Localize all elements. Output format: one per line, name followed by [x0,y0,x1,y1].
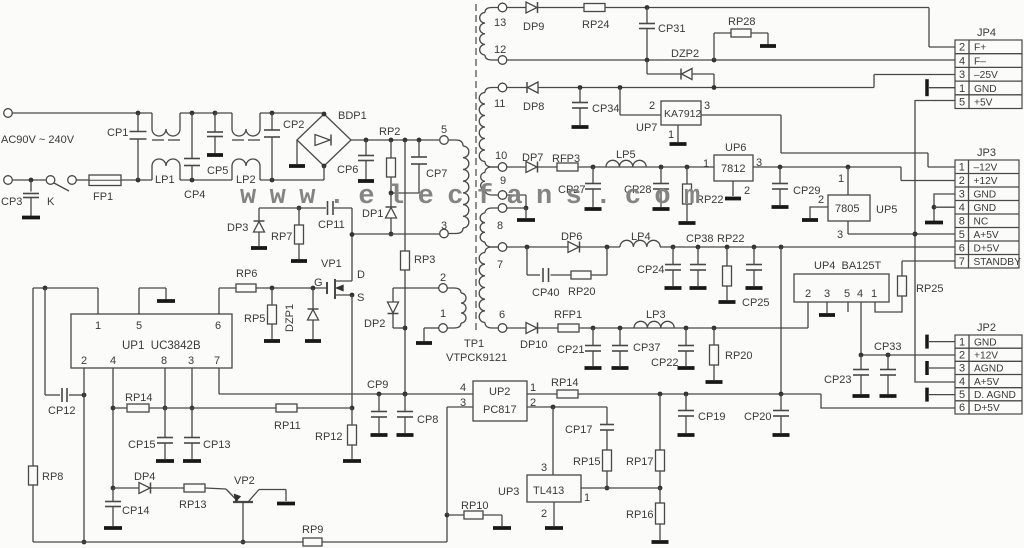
svg-text:D. AGND: D. AGND [974,390,1016,401]
svg-text:TP1: TP1 [464,338,484,350]
capacitor CP17 [606,407,608,425]
svg-text:5: 5 [844,288,850,300]
svg-text:D: D [357,269,365,281]
ground center tap [517,218,535,222]
svg-text:13: 13 [494,17,506,29]
svg-text:CP15: CP15 [128,439,156,451]
resistor RP28 [713,33,715,60]
wire rail 7 [507,246,568,248]
resistor RFP3 [557,163,578,171]
transistor VP1 (MOSFET) [326,282,328,294]
svg-text:5: 5 [959,96,965,108]
svg-text:RP3: RP3 [414,254,435,266]
svg-text:5: 5 [959,229,965,241]
capacitor CP15 [164,408,166,438]
wire STANDBY to JP3 [902,260,955,262]
svg-text:6: 6 [499,309,505,321]
ground bridge left vertex [296,140,298,164]
switch K [46,176,55,185]
capacitor CP5 [213,111,218,116]
svg-text:CP19: CP19 [698,411,726,423]
svg-text:UP6: UP6 [725,142,746,154]
svg-text:3: 3 [704,100,710,112]
ground UP4 pin3 [826,302,828,313]
wire +12V to JP3 [753,166,901,168]
capacitor CP6 [364,138,369,143]
connector JP3 [955,160,1019,268]
resistor RP22 output [726,247,728,266]
capacitor CP8 [404,394,406,412]
inductor LP2 top winding [231,113,233,129]
svg-text:LP5: LP5 [616,149,636,161]
svg-text:3: 3 [824,288,830,300]
svg-text:RP12: RP12 [315,431,343,443]
op-amp U2 optocoupler UP2 PC817 [473,381,527,421]
svg-text:GND: GND [974,190,997,201]
svg-text:UP3: UP3 [498,486,519,498]
svg-text:1: 1 [959,83,965,95]
wire A+5V JP4 to JP2 [915,101,955,383]
svg-text:4: 4 [959,55,965,67]
svg-text:3: 3 [837,229,843,241]
zener DZP1 [312,288,314,309]
svg-text:RP15: RP15 [573,456,601,468]
wire source to sense node [351,295,353,408]
svg-text:2: 2 [744,185,750,197]
zener DZP2 [646,60,648,74]
svg-text:CP5: CP5 [207,165,228,177]
capacitor CP19 [685,394,687,411]
capacitor CP33 [887,355,889,370]
resistor RP14 output [527,393,557,395]
capacitor CP27 [592,167,594,184]
wire RP14 row [113,407,127,409]
capacitor CP7 [417,138,422,143]
capacitor CP14 [112,488,114,502]
svg-text:RP2: RP2 [379,126,400,138]
inductor LP2 core [232,139,244,141]
op-amp U1 controller UP1 UC3842B box [71,314,232,368]
svg-text:1: 1 [668,129,674,141]
svg-text:2: 2 [959,175,965,187]
svg-text:CP34: CP34 [592,103,620,115]
svg-text:CP4: CP4 [184,189,205,201]
svg-text:CP29: CP29 [793,185,821,197]
svg-text:2: 2 [818,194,824,206]
inductor LP1 top winding [151,113,153,129]
svg-text:CP21: CP21 [557,344,585,356]
svg-text:DP9: DP9 [523,21,544,33]
svg-text:1: 1 [95,320,101,332]
wire pins 9-8 center tap [507,194,526,196]
svg-text:6: 6 [959,402,965,414]
transformer TP1 secondary winding 8-7 [498,204,507,213]
regulator UP7 KA7912 [619,88,621,116]
svg-text:RP25: RP25 [916,283,944,295]
svg-text:DP7: DP7 [522,152,543,164]
wire rail 12 to JP4 F- [507,59,955,61]
svg-text:CP33: CP33 [874,341,902,353]
svg-text:RP10: RP10 [461,500,489,512]
ground VP2 collector [277,502,295,506]
transformer TP1 secondary winding 7-6 [485,247,498,253]
wire bottom feedback rail [33,541,303,543]
ground TL413 pin2 [553,502,555,526]
wire +12V to JP2 [861,354,955,356]
capacitor CP2 [271,113,273,130]
wire pin1 to left column [97,288,99,314]
svg-text:UP7: UP7 [636,122,657,134]
svg-text:KA7912: KA7912 [664,108,702,120]
svg-text:VP1: VP1 [321,258,342,270]
svg-text:1: 1 [838,173,844,185]
ground CP3 [22,216,40,220]
svg-text:LP4: LP4 [631,231,651,243]
resistor RP16 [659,488,661,503]
svg-text:NC: NC [974,217,989,228]
AC input terminal top [4,109,13,118]
resistor RP22 [686,167,688,184]
transformer TP1 core dashed line [475,4,477,332]
wire rail to JP3 D+5V [660,246,955,248]
wire CP11 to drain [351,208,353,281]
transformer TP1 secondary winding 10-9 [485,167,498,173]
transformer TP1 secondary winding 13-12 [498,3,507,12]
ground JP4 GND pin [925,79,929,96]
capacitor CP28 [660,167,662,184]
wire pin7 to optocoupler [218,368,220,394]
resistor RP14 [127,404,149,412]
snubber CP40 [526,247,528,275]
capacitor CP37 [619,328,621,346]
wire pin4 column [112,368,114,488]
svg-text:4: 4 [959,376,965,388]
diode DP7 [526,162,537,173]
wire UP4 pin2 to rail [807,302,809,328]
svg-text:CP1: CP1 [107,127,128,139]
svg-text:CP37: CP37 [633,342,661,354]
svg-text:PC817: PC817 [483,404,517,416]
diode DP9 [526,2,537,13]
svg-text:JP4: JP4 [977,27,996,39]
transformer TP1 aux winding 2-1 [439,284,448,293]
svg-text:F+: F+ [974,43,986,54]
svg-text:D+5V: D+5V [974,403,1000,414]
wire CP5 to LP2 [215,112,232,114]
capacitor CP34 [579,88,581,103]
wire into JP2 D+5V [821,394,955,408]
svg-text:+12V: +12V [974,176,998,187]
inductor LP1 core [152,139,164,141]
capacitor CP11 [327,201,329,215]
wire aux winding pin2 [393,287,439,289]
svg-text:CP17: CP17 [565,424,593,436]
svg-text:8: 8 [497,220,503,232]
capacitor CP3 [29,178,34,183]
svg-text:CP13: CP13 [203,439,231,451]
svg-text:F–: F– [974,56,986,67]
svg-text:CP7: CP7 [426,168,447,180]
svg-text:DP2: DP2 [364,318,385,330]
svg-text:BDP1: BDP1 [338,110,367,122]
svg-text:STANDBY: STANDBY [974,257,1022,268]
svg-text:2: 2 [959,350,965,362]
svg-text:FP1: FP1 [93,191,113,203]
svg-text:RP7: RP7 [271,231,292,243]
svg-text:5: 5 [959,389,965,401]
svg-text:12: 12 [494,44,506,56]
wire UP4 pin5 stub [847,302,849,312]
svg-text:3: 3 [959,69,965,81]
wire rail 13 [507,7,526,9]
svg-text:RP14: RP14 [125,392,153,404]
regulator UP4 BA125T [794,274,889,302]
svg-text:CP2: CP2 [283,119,304,131]
inductor LP2 bottom winding [231,166,233,180]
wire rail 11 [507,87,527,89]
svg-text:RFP3: RFP3 [552,153,580,165]
svg-text:RP20: RP20 [725,350,753,362]
svg-text:CP11: CP11 [318,219,345,231]
svg-text:RP28: RP28 [728,16,756,28]
ground RP28 [760,44,776,48]
svg-text:RP14: RP14 [551,377,579,389]
svg-text:3: 3 [541,462,547,474]
svg-text:8: 8 [161,355,167,367]
svg-text:AGND: AGND [974,364,1003,375]
wire AC top line [13,112,153,114]
svg-text:CP12: CP12 [48,405,76,417]
ground UP6 pin2 [732,181,734,196]
wire pin3 stub [191,368,193,408]
fuse FP1 [89,175,121,186]
svg-text:LP3: LP3 [646,309,666,321]
svg-text:3: 3 [460,397,466,409]
svg-text:RP5: RP5 [244,313,265,325]
wire DC rail from bridge [351,139,440,141]
svg-text:4: 4 [110,355,116,367]
svg-text:5: 5 [136,320,142,332]
inductor LP1 bottom winding [151,166,153,180]
wire snubber node [259,207,326,209]
regulator UP5 7805 [847,167,849,195]
wire aux pin1 to ground [424,327,439,329]
resistor RP11 [192,407,276,409]
ground JP2 pin1 [925,335,929,349]
svg-text:VTPCK9121: VTPCK9121 [446,352,507,364]
svg-text:A+5V: A+5V [974,377,999,388]
resistor RP7 [297,206,302,211]
svg-text:1: 1 [584,492,590,504]
wire LP1 to CP4 node bottom [180,179,232,181]
svg-text:DZP1: DZP1 [284,304,296,332]
svg-text:UP1 UC3842B: UP1 UC3842B [122,340,201,352]
svg-text:3: 3 [959,363,965,375]
inductor LP3 [634,321,674,328]
capacitor CP23 [860,355,862,370]
resistor RP5 [271,288,273,305]
ground pin5 [157,299,175,303]
svg-text:CP24: CP24 [637,264,665,276]
diode DP8 [526,82,528,93]
svg-text:+5V: +5V [974,97,993,108]
transformer TP1 secondary winding 11-10 [498,83,507,92]
resistor RP3 [401,251,410,270]
wire pin5 ground [138,288,140,314]
wire CP20 column [780,247,782,394]
wire CP12 branch [44,288,46,395]
svg-text:1: 1 [440,308,446,320]
svg-text:JP3: JP3 [977,147,996,159]
diode DP1 [389,191,394,196]
ground JP3 GND pins [934,194,955,221]
svg-text:7: 7 [214,355,220,367]
wire to JP4 F+ [928,8,930,48]
svg-text:7: 7 [959,256,965,268]
wire switch to fuse [77,179,90,181]
ground RP10 [493,526,511,530]
diode DP4 [113,487,139,489]
wire TL413 pin1 row [581,487,660,489]
capacitor CP22 [685,328,687,346]
ground aux pin1 [416,341,432,345]
capacitor CP9 [378,394,380,412]
svg-text:RP6: RP6 [236,268,257,280]
svg-text:3: 3 [959,189,965,201]
wire rail 10 [507,166,526,168]
resistor RP9 [303,538,322,546]
svg-text:CP22: CP22 [651,357,679,369]
svg-text:7: 7 [497,259,503,271]
connector JP4 [955,40,1022,109]
svg-text:VP2: VP2 [234,475,255,487]
svg-text:JP2: JP2 [977,322,996,334]
capacitor CP21 [592,328,594,346]
regulator UP6 7812 [714,155,753,181]
svg-text:CP38: CP38 [686,233,714,245]
svg-text:CP14: CP14 [122,505,150,517]
svg-text:8: 8 [959,216,965,228]
svg-text:2: 2 [649,100,655,112]
svg-text:1: 1 [530,382,536,394]
wire rail 6 [507,327,526,329]
svg-text:2: 2 [959,42,965,54]
svg-text:RP20: RP20 [568,286,596,298]
svg-text:2: 2 [805,288,811,300]
svg-text:1: 1 [959,162,965,174]
svg-text:2: 2 [440,272,446,284]
svg-text:LP1: LP1 [155,174,175,186]
resistor RP6 [236,284,256,292]
svg-text:CP6: CP6 [337,164,358,176]
wire UP2 pin2 node [527,406,607,408]
svg-text:2: 2 [81,355,87,367]
wire to JP4 -25V [873,75,875,88]
resistor RP25 [898,276,907,296]
wire fuse to CP1 node [121,179,152,181]
svg-text:GND: GND [974,203,997,214]
svg-text:DP4: DP4 [134,471,155,483]
wire pin8 stub [164,368,166,408]
resistor RP12 [351,408,353,425]
svg-text:4: 4 [857,288,863,300]
svg-text:+12V: +12V [974,351,998,362]
wire D+5V feedback line [578,393,821,395]
svg-text:DZP2: DZP2 [671,48,699,60]
wire startup line [403,138,408,143]
wire pin6 to RP6 [218,288,220,314]
wire to TL413 ref [552,407,554,475]
wire feedback to UP2 pin3 [446,407,448,515]
resistor RFP1 [558,324,579,332]
resistor RP17 [659,394,661,450]
svg-text:DP3: DP3 [227,222,248,234]
svg-text:RP9: RP9 [302,524,323,536]
wire UP7 pin3 to JP3 -12V [701,114,781,116]
resistor RP20 output [713,328,715,345]
svg-text:2: 2 [541,508,547,520]
capacitor CP4 [191,113,193,159]
wire left feedback column [32,288,34,466]
wire bridge bottom to AC line [323,166,325,180]
capacitor CP1 [136,111,141,116]
resistor RP24 [584,4,605,12]
diode DP6 [568,242,579,253]
svg-text:RP16: RP16 [626,509,654,521]
wire LP2 to CP2 top [260,112,324,114]
capacitor CP20 [780,394,782,411]
connector JP2 [955,335,1022,414]
svg-text:UP5: UP5 [876,204,897,216]
svg-text:DP6: DP6 [561,231,582,243]
svg-text:CP20: CP20 [744,411,772,423]
svg-text:TL413: TL413 [533,485,564,497]
svg-text:RP17: RP17 [626,456,654,468]
svg-text:www.elecfans.com: www.elecfans.com [240,182,714,212]
svg-text:RP24: RP24 [582,19,610,31]
svg-text:UP2: UP2 [489,386,510,398]
capacitor CP13 [191,408,193,438]
resistor RP2 [389,138,394,143]
svg-text:11: 11 [494,98,505,110]
svg-text:4: 4 [460,382,466,394]
svg-text:AC90V ~ 240V: AC90V ~ 240V [1,134,75,146]
wire UP5 pin2 ground [810,207,828,218]
diode DP3 [258,208,260,221]
svg-text:RP22: RP22 [717,233,745,245]
wire LP2 to bridge bottom [260,179,324,181]
svg-text:RP13: RP13 [179,499,207,511]
capacitor CP38 [697,247,699,265]
wire VP2 emitter [242,502,244,542]
svg-text:7805: 7805 [835,203,859,215]
svg-text:5: 5 [441,124,447,136]
svg-text:–25V: –25V [974,70,998,81]
capacitor CP29 [779,167,781,184]
transistor VP2 [233,501,253,503]
svg-text:RP11: RP11 [274,420,301,432]
zener DP2 [392,288,394,302]
svg-text:1: 1 [959,336,965,348]
wire drain line to primary pin3 [352,233,440,235]
capacitor CP24 [672,247,674,265]
ground JP2 pin5 [925,388,929,402]
inductor LP5 [606,160,646,167]
svg-text:1: 1 [871,288,877,300]
svg-text:6: 6 [215,320,221,332]
svg-text:6: 6 [959,243,965,255]
svg-text:CP8: CP8 [417,414,438,426]
